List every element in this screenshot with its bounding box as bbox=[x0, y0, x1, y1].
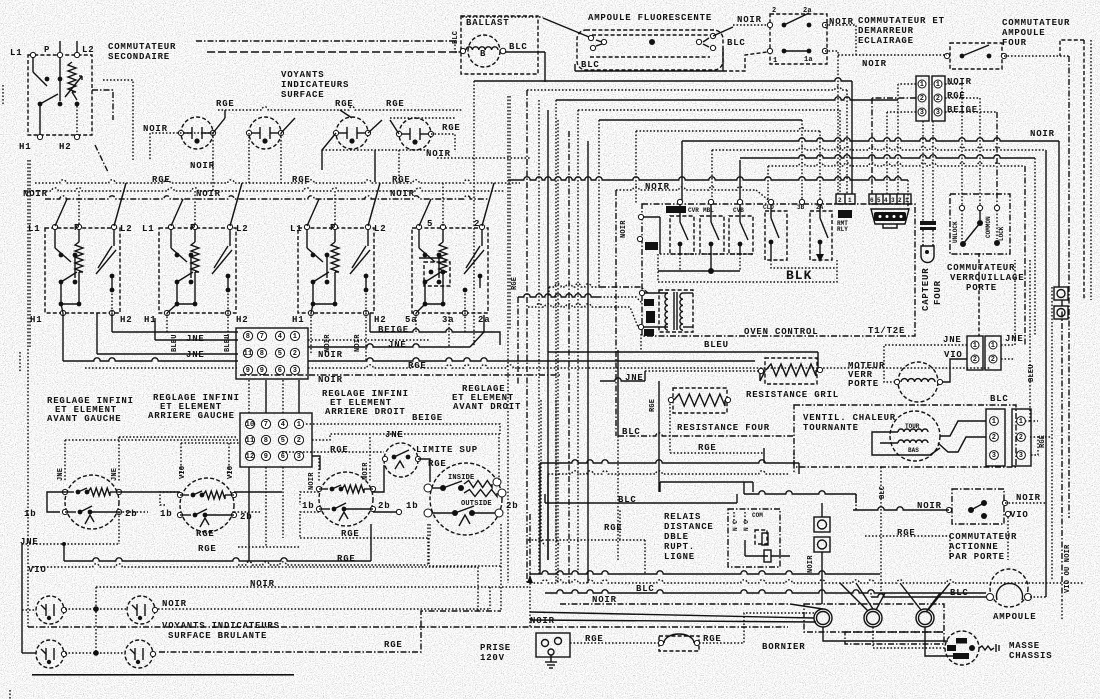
wire JNE vertical bbox=[21, 544, 23, 653]
wire H-bus y332 bbox=[112, 331, 238, 333]
svg-text:1b: 1b bbox=[24, 509, 36, 519]
svg-text:1b: 1b bbox=[160, 509, 172, 519]
center vertical bundle bbox=[538, 100, 540, 574]
svg-text:2: 2 bbox=[920, 95, 924, 103]
svg-text:FOUR: FOUR bbox=[1002, 38, 1027, 48]
svg-text:NOIR: NOIR bbox=[807, 555, 815, 573]
svg-text:VENTIL. CHALEUR: VENTIL. CHALEUR bbox=[803, 413, 896, 423]
door lock switch bbox=[950, 194, 1010, 254]
svg-text:PORTE: PORTE bbox=[848, 379, 879, 389]
svg-text:L1: L1 bbox=[10, 48, 22, 58]
svg-text:H1: H1 bbox=[30, 315, 42, 325]
svg-text:10: 10 bbox=[246, 421, 255, 429]
wire nest y166 bbox=[768, 163, 1025, 166]
wire lamp junction col bbox=[95, 587, 97, 653]
svg-text:NOIR: NOIR bbox=[318, 375, 343, 385]
wire bleu right bbox=[1029, 260, 1031, 336]
wire diagonals to bornier bbox=[530, 612, 814, 618]
wire E4 line bbox=[159, 611, 501, 652]
svg-text:1: 1 bbox=[297, 421, 301, 429]
wire noir bus y494 bbox=[744, 491, 856, 494]
svg-text:COMMUTATEUR: COMMUTATEUR bbox=[1002, 18, 1070, 28]
hot surface lamp E4 bbox=[125, 640, 153, 668]
svg-text:COMMUTATEUR ET: COMMUTATEUR ET bbox=[858, 16, 945, 26]
svg-text:BLC: BLC bbox=[879, 486, 887, 499]
svg-text:BEIGE: BEIGE bbox=[378, 325, 409, 335]
svg-text:NOIR: NOIR bbox=[308, 472, 316, 490]
wire swC risers bbox=[318, 458, 320, 482]
svg-text:AVANT DROIT: AVANT DROIT bbox=[453, 402, 521, 412]
wire bornier drops bbox=[823, 627, 948, 641]
wire H-bus y375 bbox=[240, 374, 560, 376]
svg-text:NOIR: NOIR bbox=[390, 189, 415, 199]
hot surface lamp E1 bbox=[36, 596, 64, 624]
wire block2 risers bbox=[171, 199, 183, 226]
svg-text:3: 3 bbox=[1019, 452, 1023, 460]
svg-text:3: 3 bbox=[992, 452, 996, 460]
rmt rly component bbox=[838, 210, 852, 218]
svg-text:SURFACE BRULANTE: SURFACE BRULANTE bbox=[168, 631, 267, 641]
svg-text:ARRIERE GAUCHE: ARRIERE GAUCHE bbox=[148, 411, 235, 421]
svg-text:2: 2 bbox=[1019, 434, 1023, 442]
svg-text:OVEN CONTROL: OVEN CONTROL bbox=[744, 327, 818, 337]
wire bleu bottom bbox=[548, 351, 818, 353]
svg-text:RGE: RGE bbox=[384, 640, 403, 650]
svg-text:2: 2 bbox=[772, 7, 776, 15]
svg-text:7: 7 bbox=[264, 421, 268, 429]
svg-text:NOIR: NOIR bbox=[862, 59, 887, 69]
svg-text:LIGNE: LIGNE bbox=[664, 552, 695, 562]
wire bus y474 bbox=[548, 471, 789, 474]
svg-text:L2: L2 bbox=[82, 45, 94, 55]
svg-text:4: 4 bbox=[884, 197, 888, 204]
svg-text:4: 4 bbox=[281, 421, 285, 429]
svg-text:ECLAIRAGE: ECLAIRAGE bbox=[858, 36, 914, 46]
svg-text:VIO: VIO bbox=[179, 466, 187, 479]
svg-text:ACTIONNE: ACTIONNE bbox=[949, 542, 999, 552]
svg-text:3: 3 bbox=[920, 109, 924, 117]
connector JNE/VIO bbox=[967, 336, 983, 370]
limite sup thermostat bbox=[384, 443, 418, 477]
svg-text:1: 1 bbox=[992, 418, 996, 426]
svg-text:L1: L1 bbox=[142, 224, 154, 234]
svg-text:1: 1 bbox=[973, 342, 977, 350]
svg-text:5: 5 bbox=[877, 197, 881, 204]
wire p3 leads bbox=[898, 83, 916, 85]
door light switch bbox=[770, 14, 827, 64]
svg-text:6: 6 bbox=[870, 197, 874, 204]
svg-text:COMMUTATEUR: COMMUTATEUR bbox=[108, 42, 176, 52]
wire rge y531 bbox=[528, 539, 645, 541]
svg-text:BLC: BLC bbox=[990, 394, 1009, 404]
svg-text:NOIR: NOIR bbox=[1030, 129, 1055, 139]
svg-text:BLC: BLC bbox=[581, 60, 600, 70]
wire NOIR y587 bbox=[96, 586, 530, 588]
svg-text:BEIGE: BEIGE bbox=[412, 413, 443, 423]
svg-text:BAS: BAS bbox=[908, 447, 919, 454]
svg-text:B: B bbox=[480, 49, 486, 59]
svg-text:RGE: RGE bbox=[216, 99, 235, 109]
strip 6-1 bbox=[869, 194, 911, 204]
door lock motor bbox=[898, 362, 938, 402]
wire y52 to ballast bbox=[207, 51, 461, 53]
svg-text:3: 3 bbox=[936, 109, 940, 117]
svg-text:DBLE: DBLE bbox=[664, 532, 689, 542]
svg-text:2A: 2A bbox=[816, 204, 824, 211]
infinite switch SW-B bbox=[180, 478, 234, 532]
svg-text:NOIR: NOIR bbox=[1016, 493, 1041, 503]
right border wires bbox=[1083, 40, 1085, 300]
svg-text:INDICATEURS: INDICATEURS bbox=[281, 80, 349, 90]
svg-text:INSIDE: INSIDE bbox=[448, 474, 474, 482]
svg-text:11: 11 bbox=[244, 350, 253, 358]
svg-text:L1: L1 bbox=[290, 224, 302, 234]
svg-text:COMMUTATEUR: COMMUTATEUR bbox=[949, 532, 1017, 542]
svg-text:H1: H1 bbox=[292, 315, 304, 325]
svg-text:2: 2 bbox=[838, 197, 842, 204]
wire rge y536 bbox=[865, 535, 950, 537]
svg-text:RGE: RGE bbox=[392, 175, 411, 185]
svg-text:H2: H2 bbox=[120, 315, 132, 325]
svg-text:H1: H1 bbox=[19, 142, 31, 152]
svg-text:8: 8 bbox=[246, 333, 250, 341]
wire noir solid y561 bbox=[64, 558, 371, 561]
wire bus y583 bbox=[530, 580, 1084, 583]
wire nest y131 bbox=[636, 128, 820, 131]
wire fuse to bornier bbox=[699, 613, 814, 643]
svg-text:JNE: JNE bbox=[186, 334, 205, 344]
relay labels small bbox=[666, 206, 686, 213]
resistance four bbox=[673, 388, 727, 413]
svg-text:12: 12 bbox=[246, 453, 255, 461]
oven control internal wires bbox=[638, 214, 643, 219]
svg-text:JNE: JNE bbox=[1005, 334, 1024, 344]
wire strip2 drops bbox=[248, 467, 250, 561]
wire to oven lamp switch bbox=[838, 54, 947, 56]
svg-text:N C: N C bbox=[732, 520, 739, 531]
svg-text:P: P bbox=[74, 223, 80, 233]
svg-text:MBL: MBL bbox=[703, 207, 714, 214]
svg-text:JNE: JNE bbox=[57, 468, 65, 481]
svg-text:P: P bbox=[190, 223, 196, 233]
strip 2-1 bbox=[836, 194, 855, 204]
svg-text:H2: H2 bbox=[59, 142, 71, 152]
wire ballast diag to lamp bbox=[543, 18, 589, 37]
svg-text:1b: 1b bbox=[302, 501, 314, 511]
svg-text:2a: 2a bbox=[803, 7, 812, 15]
wire blc vertical right bbox=[880, 467, 882, 593]
svg-text:9: 9 bbox=[264, 453, 268, 461]
svg-text:4: 4 bbox=[278, 333, 282, 341]
svg-text:PORTE: PORTE bbox=[966, 283, 997, 293]
svg-text:RGE: RGE bbox=[386, 99, 405, 109]
svg-text:JNE: JNE bbox=[385, 430, 404, 440]
svg-text:JNE: JNE bbox=[111, 468, 119, 481]
svg-text:RGE: RGE bbox=[292, 175, 311, 185]
svg-text:RGE: RGE bbox=[897, 528, 916, 538]
wire bus y574 bbox=[530, 571, 880, 574]
svg-text:9: 9 bbox=[260, 367, 264, 375]
wire nest y120 bbox=[599, 119, 802, 121]
connector P3 bbox=[916, 76, 929, 121]
svg-text:RGE: RGE bbox=[585, 634, 604, 644]
wire bus NOIR y199 bbox=[45, 196, 490, 199]
svg-text:1a: 1a bbox=[804, 56, 813, 64]
svg-text:JNE: JNE bbox=[186, 350, 205, 360]
wire H-bus y354 bbox=[97, 353, 238, 355]
svg-text:RGE: RGE bbox=[330, 445, 349, 455]
svg-text:BLEU: BLEU bbox=[1028, 364, 1036, 382]
svg-text:VOYANTS INDICATEURS: VOYANTS INDICATEURS bbox=[162, 621, 280, 631]
surface switch block 1 (avant gauche) bbox=[45, 228, 120, 313]
oven control relays K1-K3 bbox=[670, 216, 694, 254]
svg-text:6: 6 bbox=[278, 367, 282, 375]
svg-text:BLEU: BLEU bbox=[224, 334, 232, 352]
infinite switch SW-D (double) bbox=[430, 463, 502, 535]
wire H-bus y361 bbox=[63, 358, 238, 361]
wire swA risers bbox=[64, 440, 66, 482]
svg-text:H2: H2 bbox=[236, 315, 248, 325]
terminal strip TB1 bbox=[236, 328, 308, 379]
svg-text:RLY: RLY bbox=[837, 226, 848, 233]
wire RGE y547 bbox=[238, 546, 300, 548]
wire verrouillage common drop bbox=[978, 253, 980, 336]
svg-text:P: P bbox=[44, 45, 50, 55]
svg-text:CVR: CVR bbox=[688, 207, 699, 214]
wire sw wiring bbox=[119, 491, 180, 493]
wire RGE y565 bbox=[238, 562, 428, 565]
hot surface lamp E2 bbox=[127, 596, 155, 624]
svg-text:1: 1 bbox=[293, 333, 297, 341]
svg-text:NOIR: NOIR bbox=[530, 616, 555, 626]
svg-text:2b: 2b bbox=[125, 509, 137, 519]
small switch components right bbox=[814, 517, 830, 532]
svg-text:2: 2 bbox=[898, 197, 902, 204]
svg-text:PRISE: PRISE bbox=[480, 643, 511, 653]
svg-text:AMPOULE FLUORESCENTE: AMPOULE FLUORESCENTE bbox=[588, 13, 712, 23]
bornier terminals bbox=[814, 609, 832, 627]
svg-text:BLC: BLC bbox=[452, 31, 460, 44]
infinite switch SW-A bbox=[65, 475, 119, 529]
commutateur secondaire switch S1 bbox=[28, 55, 92, 135]
wire lamp bottom rail bbox=[575, 70, 723, 72]
wire nest y150 bbox=[712, 147, 1046, 150]
wire left drop bbox=[103, 80, 133, 160]
svg-text:CAPTEUR: CAPTEUR bbox=[921, 268, 931, 311]
svg-text:6: 6 bbox=[281, 453, 285, 461]
svg-text:2: 2 bbox=[992, 434, 996, 442]
indicator lamp DS3 bbox=[336, 117, 368, 149]
svg-text:RGE: RGE bbox=[408, 361, 427, 371]
svg-text:RGE: RGE bbox=[947, 91, 966, 101]
svg-text:JNE: JNE bbox=[943, 335, 962, 345]
wire eclairage noir bbox=[825, 25, 856, 55]
svg-text:RUPT.: RUPT. bbox=[664, 542, 695, 552]
svg-text:MASSE: MASSE bbox=[1009, 641, 1040, 651]
wire bus NOIR y191 bbox=[25, 188, 505, 191]
wire ballast right bbox=[505, 51, 545, 53]
resistance gril bbox=[765, 358, 817, 384]
svg-text:BORNIER: BORNIER bbox=[762, 642, 805, 652]
svg-text:L2: L2 bbox=[236, 224, 248, 234]
door actuated switch bbox=[952, 489, 1004, 524]
dark connector component bbox=[871, 209, 909, 224]
svg-text:1: 1 bbox=[991, 342, 995, 350]
wire noir from E2 bbox=[158, 608, 490, 610]
svg-text:CLD: CLD bbox=[763, 204, 774, 211]
right small connectors bbox=[1054, 287, 1068, 300]
oven control relays K4-K5 bbox=[765, 211, 787, 260]
svg-text:120V: 120V bbox=[480, 653, 505, 663]
wire nest y158 bbox=[740, 155, 1035, 158]
svg-text:1: 1 bbox=[905, 197, 909, 204]
bornier box bbox=[804, 604, 944, 632]
svg-text:2: 2 bbox=[973, 356, 977, 364]
wire top from L2 bbox=[76, 41, 78, 53]
transformer T1 bbox=[659, 290, 693, 332]
svg-text:RGE: RGE bbox=[428, 459, 447, 469]
svg-text:7: 7 bbox=[260, 333, 264, 341]
svg-text:H2: H2 bbox=[374, 315, 386, 325]
wire lamp feeds bbox=[218, 107, 462, 110]
svg-text:5: 5 bbox=[278, 350, 282, 358]
svg-text:NOIR: NOIR bbox=[354, 334, 362, 352]
svg-text:RESISTANCE GRIL: RESISTANCE GRIL bbox=[746, 390, 839, 400]
svg-text:RGE: RGE bbox=[198, 544, 217, 554]
svg-text:VERROUILLAGE: VERROUILLAGE bbox=[950, 273, 1024, 283]
svg-text:NOIR: NOIR bbox=[362, 462, 370, 480]
svg-text:2: 2 bbox=[936, 95, 940, 103]
wire jne y381 bbox=[600, 378, 645, 381]
svg-text:FOUR: FOUR bbox=[933, 280, 943, 305]
svg-text:CVB: CVB bbox=[733, 207, 744, 214]
svg-text:1: 1 bbox=[848, 197, 852, 204]
wire lamp right to switch bbox=[713, 27, 733, 36]
wire jne vio leads bbox=[884, 345, 967, 382]
wire door sw bbox=[853, 507, 949, 510]
wire beige reglage bbox=[306, 424, 500, 434]
relay distance box bbox=[728, 509, 780, 567]
svg-text:1b: 1b bbox=[406, 501, 418, 511]
wire lamp drops bbox=[248, 150, 250, 183]
svg-text:L1: L1 bbox=[28, 224, 40, 234]
svg-text:NOIR: NOIR bbox=[196, 189, 221, 199]
svg-text:COMMON: COMMON bbox=[985, 216, 992, 238]
oven lamp ampoule bbox=[990, 569, 1028, 607]
svg-text:UNLOCK: UNLOCK bbox=[952, 221, 959, 243]
svg-text:JNE: JNE bbox=[20, 537, 39, 547]
svg-text:NOIR: NOIR bbox=[23, 189, 48, 199]
svg-text:AMPOULE: AMPOULE bbox=[993, 612, 1036, 622]
surface switch block 4 (avant droit) bbox=[412, 228, 488, 313]
wire TB1-TB2 links bbox=[248, 380, 250, 413]
wire nest y110 bbox=[578, 109, 840, 111]
wire bus y463 bbox=[540, 460, 799, 463]
svg-text:AMPOULE: AMPOULE bbox=[1002, 28, 1045, 38]
fuse F1 bbox=[659, 636, 699, 651]
svg-text:NOIR: NOIR bbox=[737, 15, 762, 25]
wire bus y482 bbox=[660, 481, 753, 483]
wire nest y90 bbox=[527, 87, 847, 90]
svg-text:1: 1 bbox=[1019, 418, 1023, 426]
wire rge y453 bbox=[670, 452, 764, 454]
svg-text:3: 3 bbox=[891, 197, 895, 204]
svg-text:OUTSIDE: OUTSIDE bbox=[461, 500, 492, 508]
svg-text:SECONDAIRE: SECONDAIRE bbox=[108, 52, 170, 62]
svg-text:RGE: RGE bbox=[337, 554, 356, 564]
wire nest y190 bbox=[616, 187, 756, 190]
connector fan bbox=[986, 409, 1005, 466]
wire ampoule bbox=[871, 594, 986, 597]
svg-text:2b: 2b bbox=[240, 512, 252, 522]
wire nest y141 bbox=[682, 138, 1059, 141]
svg-text:2: 2 bbox=[991, 356, 995, 364]
svg-text:RGE: RGE bbox=[196, 529, 215, 539]
wire nest y100 bbox=[556, 97, 898, 100]
wire ballast left bbox=[454, 41, 456, 52]
svg-text:5: 5 bbox=[281, 437, 285, 445]
fluorescent lamp bbox=[577, 30, 723, 70]
wire rge to fuse bbox=[570, 642, 659, 644]
svg-text:TOURNANTE: TOURNANTE bbox=[803, 423, 859, 433]
svg-text:CHASSIS: CHASSIS bbox=[1009, 651, 1052, 661]
svg-text:N O: N O bbox=[743, 520, 750, 531]
wire transformer feeds bbox=[600, 287, 648, 293]
svg-text:NOIR: NOIR bbox=[947, 77, 972, 87]
svg-text:AVANT GAUCHE: AVANT GAUCHE bbox=[47, 414, 121, 424]
wire block4 risers bbox=[419, 199, 431, 226]
svg-text:3: 3 bbox=[297, 453, 301, 461]
svg-text:NOIR: NOIR bbox=[162, 599, 187, 609]
svg-text:RGE: RGE bbox=[698, 443, 717, 453]
capteur four sensor bbox=[920, 221, 936, 225]
oven control box bbox=[642, 204, 915, 336]
svg-text:COMMUTATEUR: COMMUTATEUR bbox=[947, 263, 1015, 273]
svg-text:8: 8 bbox=[264, 437, 268, 445]
left edge marks bbox=[19, 352, 21, 372]
terminal strip TB2 bbox=[240, 413, 312, 467]
wire fan leads bbox=[1030, 420, 1038, 422]
wire blc y436 bbox=[618, 433, 794, 436]
svg-text:NOIR: NOIR bbox=[620, 220, 628, 238]
svg-text:2: 2 bbox=[297, 437, 301, 445]
svg-text:ARRIERE DROIT: ARRIERE DROIT bbox=[325, 407, 406, 417]
svg-text:LIMITE SUP: LIMITE SUP bbox=[416, 445, 478, 455]
wire noir y604 bbox=[560, 603, 790, 605]
svg-text:DEMARREUR: DEMARREUR bbox=[858, 26, 914, 36]
svg-text:8: 8 bbox=[260, 350, 264, 358]
svg-text:VIO OU NOIR: VIO OU NOIR bbox=[1064, 544, 1072, 593]
svg-text:JNE: JNE bbox=[388, 340, 407, 350]
wire noir y627 bbox=[28, 626, 788, 628]
wire VIO bbox=[33, 564, 478, 567]
svg-text:BLC: BLC bbox=[636, 584, 655, 594]
wire nest NOIR y180 bbox=[508, 177, 908, 180]
surface switch block 2 (arriere gauche) bbox=[159, 228, 236, 313]
svg-text:RGE: RGE bbox=[649, 399, 657, 412]
svg-text:RESISTANCE FOUR: RESISTANCE FOUR bbox=[677, 423, 770, 433]
pointer from secondaire bbox=[95, 145, 108, 172]
svg-text:3B: 3B bbox=[797, 204, 805, 211]
surface switch block 3 (arriere droit) bbox=[298, 228, 374, 313]
wire strip drops bbox=[166, 313, 168, 332]
svg-text:2: 2 bbox=[474, 219, 480, 229]
svg-text:9: 9 bbox=[246, 367, 250, 375]
svg-text:RELAIS: RELAIS bbox=[664, 512, 701, 522]
wire eclairage drop bbox=[837, 56, 839, 194]
svg-text:3a: 3a bbox=[442, 315, 454, 325]
svg-text:VIO: VIO bbox=[1010, 510, 1029, 520]
